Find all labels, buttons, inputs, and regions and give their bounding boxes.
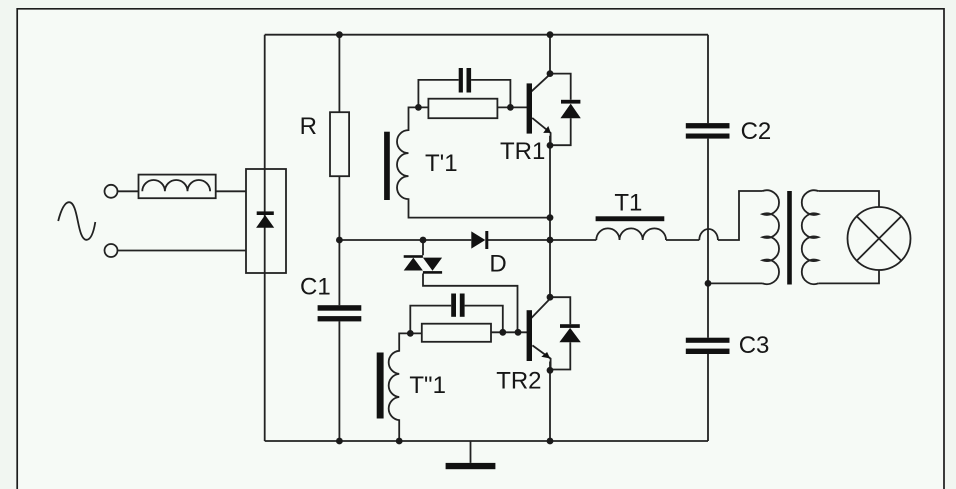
svg-text:C3: C3 bbox=[739, 332, 770, 359]
svg-text:T'1: T'1 bbox=[425, 150, 458, 177]
svg-text:R: R bbox=[300, 113, 317, 140]
svg-text:C2: C2 bbox=[741, 118, 772, 145]
svg-text:T1: T1 bbox=[614, 190, 642, 217]
svg-text:D: D bbox=[489, 251, 506, 278]
svg-text:TR2: TR2 bbox=[496, 367, 541, 394]
svg-text:T"1: T"1 bbox=[409, 372, 446, 399]
svg-text:TR1: TR1 bbox=[500, 138, 545, 165]
svg-text:C1: C1 bbox=[300, 274, 331, 301]
